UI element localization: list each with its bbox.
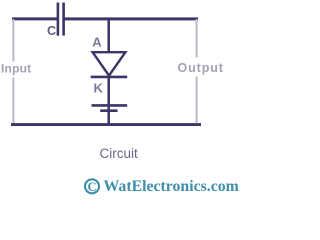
svg-text:C: C: [87, 180, 96, 194]
watermark copyright symbol: [85, 179, 99, 194]
wire: right output line upper segment: [196, 19, 198, 58]
svg-text:K: K: [94, 81, 104, 96]
wire: battery to bottom rail: [107, 105, 110, 124]
capacitor C1 right plate: [62, 3, 65, 36]
svg-text:Output: Output: [178, 61, 224, 75]
wire: left input line lower segment: [12, 78, 14, 124]
wire: diode cathode to battery: [107, 77, 110, 105]
wire: top rail left segment (input corner to capacitor): [12, 17, 58, 20]
svg-text:Input: Input: [1, 62, 31, 76]
wire: diode branch from top rail to diode anode: [107, 19, 110, 52]
wire: top rail right segment (capacitor to output corner): [64, 17, 198, 20]
capacitor C1 left plate: [57, 3, 60, 36]
svg-text:A: A: [92, 35, 102, 50]
diode D1 cathode bar: [91, 76, 128, 79]
svg-text:C: C: [47, 24, 56, 38]
wire: bottom rail: [11, 123, 201, 126]
svg-text:WatElectronics.com: WatElectronics.com: [104, 178, 239, 195]
battery negative short plate: [100, 109, 117, 112]
diode D1 triangle (anode side, pointing down): [93, 52, 126, 75]
wire: right output line lower segment: [196, 77, 198, 124]
wire: left input line upper segment: [12, 19, 14, 62]
battery positive long plate: [92, 104, 128, 107]
svg-text:Circuit: Circuit: [100, 146, 139, 161]
